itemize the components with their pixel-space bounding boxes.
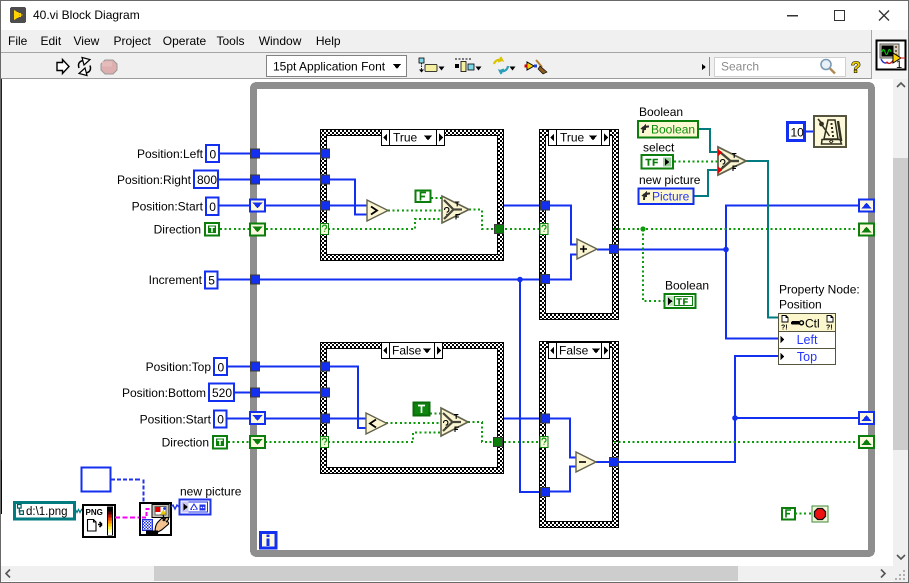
case structure 2 (True, tall narrow) border [540, 130, 619, 320]
svg-text:Position:Top: Position:Top [146, 360, 212, 374]
VI icon (top-right) [877, 41, 906, 72]
svg-text:Position:Start: Position:Start [140, 413, 212, 427]
vertical scrollbar [893, 79, 909, 566]
junction on case2 output wire [723, 247, 729, 253]
svg-text:Direction: Direction [162, 436, 209, 450]
run button [57, 60, 69, 74]
shift register right bottom (green up arrow) [859, 436, 874, 448]
while loop border [254, 86, 872, 554]
read PNG file node [83, 505, 115, 537]
close button [879, 11, 889, 21]
wire: boolean branch down to Boolean indicator [643, 229, 664, 301]
numeric constant 10 [788, 123, 805, 141]
search magnifier icon [821, 60, 835, 74]
wire: draw node to new picture indicator (blue wavy) [171, 505, 179, 509]
loop iteration terminal i [261, 533, 277, 549]
svg-text:0: 0 [218, 361, 225, 375]
svg-text:Position:Right: Position:Right [117, 173, 192, 187]
svg-text:Boolean: Boolean [665, 279, 709, 293]
resize objects button [494, 57, 516, 74]
vertical scrollbar up arrow [897, 83, 905, 87]
font selector dropdown [267, 56, 407, 77]
shift register left top (Direction, green down arrow) [250, 224, 265, 236]
svg-text:TF: TF [677, 297, 689, 307]
tunnel: loop border Position:Right [251, 175, 260, 184]
tunnel: case2 left top [541, 201, 550, 210]
title bar [0, 0, 909, 30]
wire: case3 internal Top riser to less-than [329, 367, 367, 429]
tunnel: case4 right output [610, 458, 619, 467]
case structure 3 (False, bottom) border [321, 343, 504, 474]
wire: Position:Right row [219, 179, 325, 181]
loop condition terminal (stop octagon) [812, 506, 828, 522]
window edge red sliver (background window) [0, 79, 2, 460]
align objects button [419, 58, 445, 73]
wire: less-than output to select s input [386, 422, 441, 424]
svg-text:520: 520 [212, 386, 232, 400]
svg-text:False: False [559, 344, 589, 358]
search box [715, 58, 846, 77]
shift register right bottom (blue up arrow) [859, 412, 874, 424]
vertical scrollbar thumb [893, 158, 909, 450]
svg-text:Window: Window [259, 34, 302, 48]
numeric constant 520 [209, 384, 234, 402]
wire: Direction (bottom) boolean pass-through behind case 3 [228, 441, 540, 443]
junction on case4 output wire [732, 415, 738, 421]
select node (case3) [441, 408, 468, 436]
svg-text:PNG: PNG [86, 508, 103, 517]
case structure 4 (False, tall narrow) border [540, 342, 619, 528]
case 3 selector label "False" [382, 343, 443, 359]
svg-text:Picture: Picture [652, 190, 690, 204]
wire: Increment with branch down to case 4 [217, 280, 541, 493]
svg-text:Help: Help [316, 34, 341, 48]
shift register right top (green up arrow) [859, 224, 874, 236]
svg-text:File: File [8, 34, 28, 48]
tunnel: loop border Increment [251, 275, 260, 284]
numeric constant 0 (Position:Left) [206, 145, 219, 162]
wire: Position:Start (top) pass-through behind case 1 [219, 205, 541, 207]
svg-text:15pt Application Font: 15pt Application Font [273, 60, 386, 74]
tunnel: loop border Position:Left [251, 149, 260, 158]
wire: case1 internal Start to greater-than [329, 205, 367, 207]
maximize button [835, 11, 845, 21]
numeric constant 0 (Position:Start bottom) [214, 411, 227, 428]
boolean control T (Direction bottom) [213, 436, 227, 449]
numeric constant 5 (Increment) [205, 272, 218, 289]
wire: case2 internal top input to add [549, 206, 577, 245]
horizontal scrollbar thumb [154, 566, 738, 581]
tunnel: case3 left Position:Start [321, 414, 330, 423]
svg-text:select: select [643, 141, 675, 155]
draw flattened pixmap node [140, 503, 171, 535]
wire: Position:Start (bottom) pass-through behind case 3 [226, 418, 541, 420]
svg-text:40.vi Block Diagram: 40.vi Block Diagram [33, 8, 140, 22]
svg-text:?!: ?! [826, 325, 833, 332]
svg-text:Position: Position [779, 298, 822, 312]
tunnel: case1 selector ? [321, 224, 329, 235]
tunnel: case1 left Position:Start [321, 201, 330, 210]
Boolean control refnum [638, 121, 698, 138]
case structure 1 (True, top) border [321, 130, 504, 261]
svg-text:0: 0 [210, 148, 217, 162]
svg-text:Boolean: Boolean [651, 123, 695, 137]
boolean constant F (stop) [782, 508, 795, 520]
horizontal scrollbar left arrow [6, 570, 10, 578]
wait until next ms multiple node (metronome) [814, 116, 846, 147]
svg-text:new picture: new picture [639, 173, 701, 187]
svg-text:TF: TF [646, 158, 660, 169]
svg-text:Tools: Tools [217, 34, 245, 48]
tunnel: loop border Position:Bottom [251, 388, 260, 397]
select node (top right) [718, 147, 746, 175]
tunnel: case4 selector ? [540, 437, 548, 448]
wire: path to PNG reader (teal squiggle) [74, 510, 83, 513]
wire: boolean dotted right of case2 to right shift register [614, 228, 859, 230]
wire: F constant to select t input [431, 197, 442, 199]
svg-text:View: View [74, 34, 100, 48]
toolbar [0, 53, 909, 78]
svg-text:800: 800 [197, 173, 217, 187]
tunnel: case3 left Position:Top [321, 362, 330, 371]
tunnel: case2 right output [610, 245, 619, 254]
wire: boolean dotted right of case4 to right shift register [614, 441, 859, 443]
junction on Increment wire [517, 277, 523, 283]
svg-text:10: 10 [791, 126, 805, 140]
boolean control T (Direction top) [205, 223, 219, 236]
svg-text:Search: Search [721, 60, 759, 74]
numeric constant 0 (Position:Start top) [206, 198, 219, 216]
tunnel: case4 left bottom (increment) [541, 488, 550, 497]
wire: Picture refnum to select f input (teal) [694, 170, 718, 196]
shift register left bottom (Direction, green down arrow) [250, 436, 265, 448]
distribute objects button [455, 59, 482, 72]
LabVIEW app icon [10, 7, 26, 23]
wire: case1 internal selector dotted to select f input [328, 219, 442, 229]
wire: Boolean refnum to select t input (teal) [698, 129, 718, 152]
wire: Position:Top row [227, 366, 325, 368]
search divider [702, 64, 706, 70]
wire: Position:Bottom row [234, 392, 325, 394]
tunnel: case3 selector ? [321, 437, 329, 448]
svg-text:Edit: Edit [41, 34, 62, 48]
svg-text:Operate: Operate [163, 34, 207, 48]
Picture control refnum [639, 189, 694, 205]
wire: add output to case2 tunnel [597, 249, 612, 251]
wire: case3 internal selector dotted to select f input [328, 433, 441, 443]
svg-text:False: False [392, 344, 422, 358]
case 2 selector label "True" [549, 130, 610, 146]
horizontal scrollbar right arrow [881, 570, 885, 578]
wire: case4 internal bottom input to subtract [548, 467, 576, 492]
wire: Position:Left row [219, 153, 325, 155]
wire: select1 output to case1 tunnel [469, 210, 495, 230]
shift register left bottom (Start, blue down arrow) [250, 412, 265, 424]
wire: Direction (top) boolean pass-through behind case 1 [220, 228, 540, 230]
shift register right top (blue up arrow) [859, 200, 874, 212]
wire: F to loop condition terminal [795, 513, 812, 515]
svg-text:Ctl: Ctl [805, 317, 820, 331]
svg-text:Top: Top [797, 350, 817, 364]
svg-text:0: 0 [209, 200, 216, 214]
subtract node [576, 452, 596, 472]
property node [779, 314, 836, 365]
wire: case1 internal Right riser to greater-than [329, 180, 367, 215]
boolean constant T (case3, true green) [414, 403, 430, 416]
wire: select3 output to case3 tunnel [468, 422, 494, 442]
svg-text:Property Node:: Property Node: [779, 283, 860, 297]
wire: case2 output to junction, up to right shift register and down to property node Left [614, 206, 859, 339]
wire: case4 output up to property node Top with branch to right shift register [614, 356, 859, 462]
path constant d:\1.png [15, 503, 75, 520]
case 4 selector label "False" [549, 343, 610, 359]
svg-text:new picture: new picture [180, 485, 242, 499]
numeric constant 800 [194, 171, 218, 189]
wire: case3 internal Start to less-than [329, 418, 367, 420]
diagram cleanup button [525, 60, 548, 74]
svg-text:?: ? [851, 60, 861, 77]
svg-text:Increment: Increment [149, 273, 203, 287]
svg-text:Boolean: Boolean [639, 105, 683, 119]
svg-text:Left: Left [797, 333, 818, 347]
new picture indicator terminal [180, 500, 211, 515]
horizontal scrollbar [0, 566, 893, 581]
tunnel: loop border Position:Top [251, 362, 260, 371]
run continuously button [79, 58, 91, 76]
wire: greater-than output to select s input [388, 210, 442, 212]
tunnel: case1 left Position:Right [321, 175, 330, 184]
tunnel: case1 left Position:Left [321, 149, 330, 158]
greater-than node [367, 200, 388, 221]
select TF boolean control [642, 155, 674, 169]
wire: 10 to wait node [805, 131, 814, 133]
scrollbar corner resize grip [893, 566, 909, 583]
shift register left top (Start, blue down arrow) [250, 200, 265, 212]
boolean constant F (case1) [416, 191, 431, 203]
vertical scrollbar down arrow [897, 555, 905, 559]
wire: subtract output to case4 tunnel [596, 461, 612, 463]
svg-text:True: True [560, 131, 585, 145]
svg-text:5: 5 [208, 274, 215, 288]
svg-text:1: 1 [896, 59, 902, 71]
tunnel: case4 left top [541, 414, 550, 423]
wire: case4 internal top input to subtract [549, 419, 576, 458]
minimize button [787, 15, 798, 17]
wire: case2 internal bottom input to add [548, 255, 577, 280]
svg-text:True: True [393, 131, 418, 145]
svg-text:Direction: Direction [154, 223, 201, 237]
wire: select TF control to select s input [674, 161, 718, 163]
less-than node [366, 413, 387, 434]
svg-text:?!: ?! [781, 325, 788, 332]
wire: PNG reader to draw node (magenta image data) [115, 517, 140, 519]
svg-text:0: 0 [217, 413, 224, 427]
junction on boolean wire [640, 226, 645, 231]
tunnel: case3 right boolean output [494, 438, 503, 447]
abort button (dimmed) [101, 60, 117, 74]
svg-text:Position:Bottom: Position:Bottom [122, 386, 206, 400]
add node [577, 239, 597, 259]
wire: select2 output teal down to property node [746, 161, 778, 318]
wire: T constant to select t input [430, 413, 441, 415]
svg-text:Project: Project [114, 34, 152, 48]
Boolean TF indicator [665, 294, 696, 308]
tunnel: case2 left bottom (increment) [541, 275, 550, 284]
tunnel: case3 left Position:Bottom [321, 388, 330, 397]
tunnel: case2 selector ? [540, 224, 548, 235]
svg-text:d:\1.png: d:\1.png [26, 506, 68, 518]
wire: picture constant to draw node (blue wavy) [111, 480, 144, 502]
svg-text:Position:Start: Position:Start [132, 200, 204, 214]
select node (case1) [442, 196, 469, 223]
svg-text:Position:Left: Position:Left [137, 147, 204, 161]
picture constant (empty blue box) [82, 468, 111, 492]
case 1 selector label "True" [382, 130, 445, 146]
numeric constant 0 (Position:Top) [214, 358, 227, 375]
menu bar [0, 30, 909, 52]
tunnel: case1 right boolean output [495, 225, 504, 234]
